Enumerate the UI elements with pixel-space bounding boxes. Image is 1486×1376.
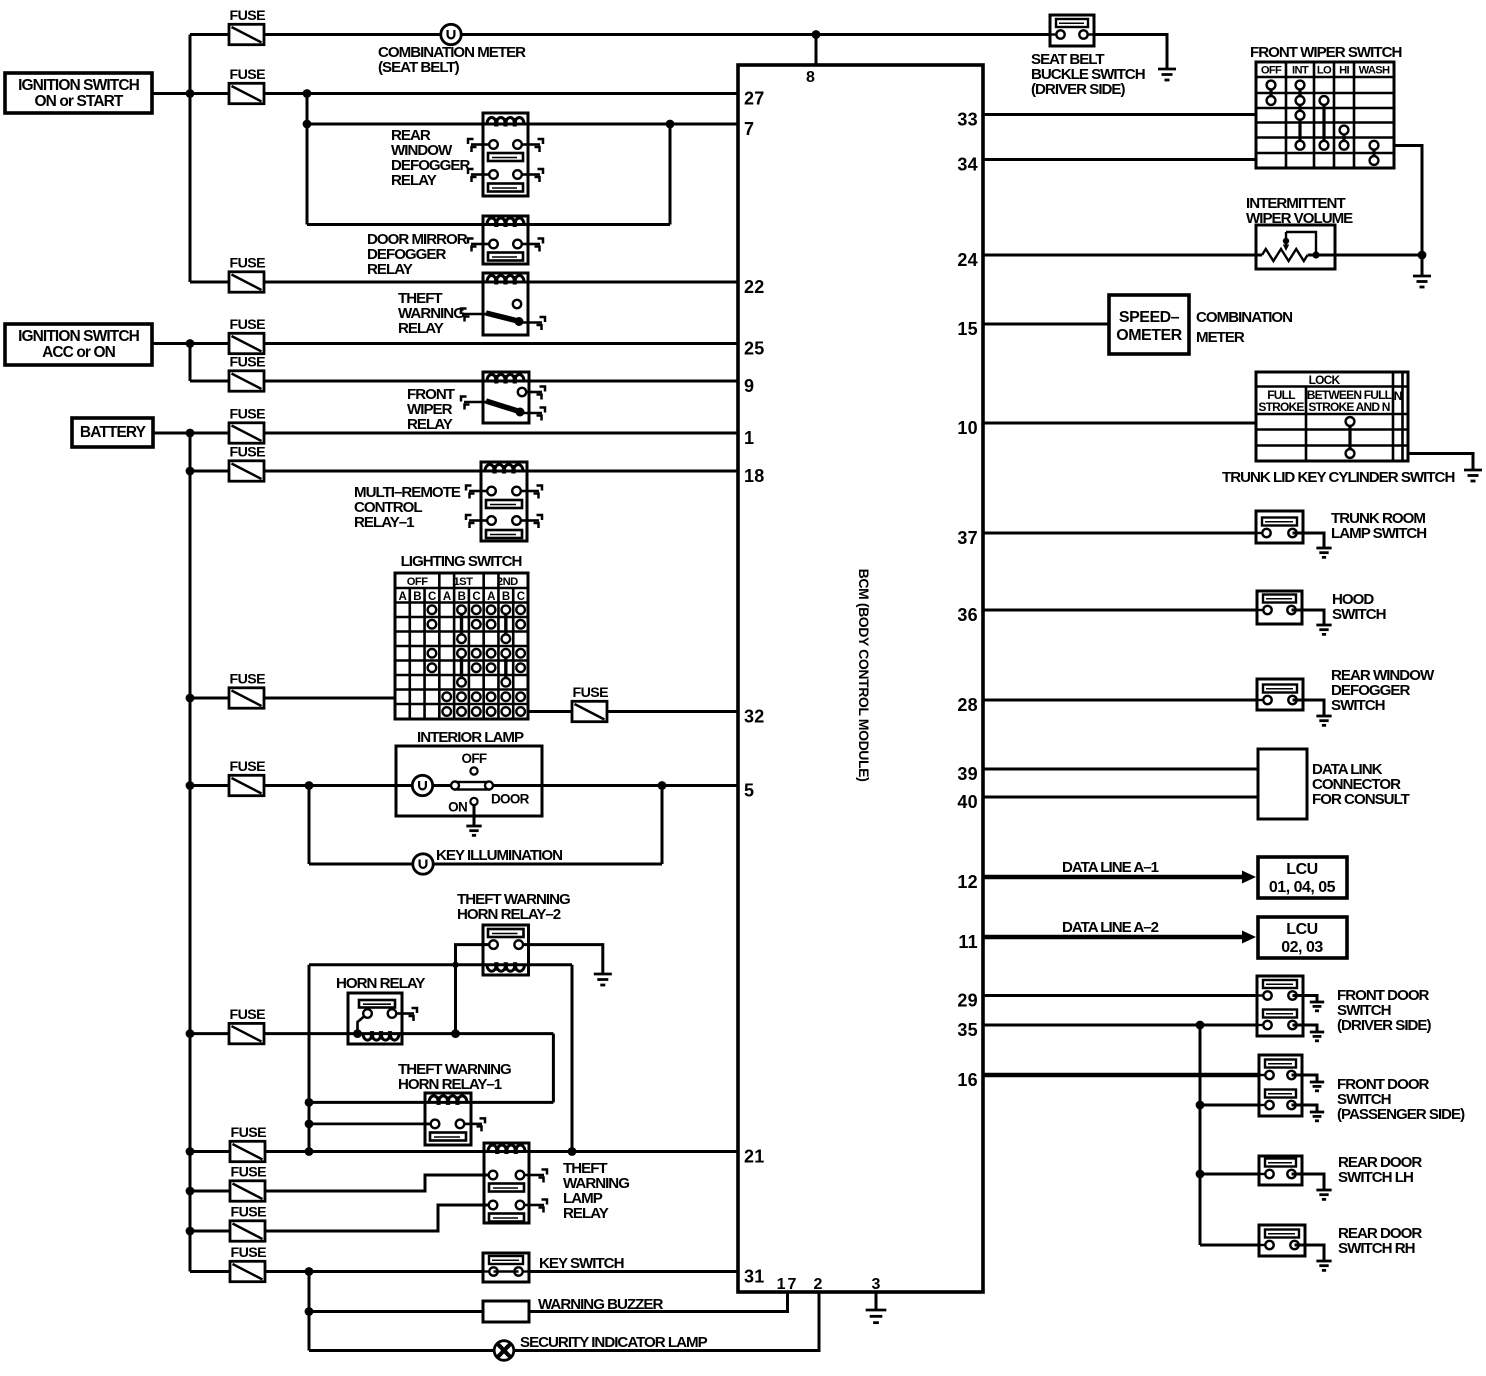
wire pin 21 [190, 1150, 738, 1153]
lamp key illumination [413, 854, 433, 874]
svg-text:SWITCH: SWITCH [1331, 697, 1385, 714]
wire pin 28 [983, 699, 1266, 702]
wire interior lamp ON to ground [473, 805, 476, 826]
node ON/START junction [186, 89, 195, 98]
svg-text:40: 40 [957, 792, 978, 812]
wire top combination-meter feed [190, 33, 1050, 36]
switch rear door LH [1259, 1156, 1302, 1185]
svg-text:HORN RELAY–2: HORN RELAY–2 [457, 906, 561, 923]
svg-text:3: 3 [872, 1276, 881, 1293]
wire pin 1 [190, 432, 738, 435]
ground interior lamp [466, 825, 481, 828]
wire pin 27 [190, 92, 738, 95]
svg-text:OFF: OFF [1261, 65, 1282, 77]
wire pin 39 [983, 768, 1258, 771]
component intermittent wiper volume [1256, 225, 1335, 269]
switch trunk room lamp [1256, 511, 1303, 543]
svg-text:RELAY: RELAY [391, 172, 437, 189]
svg-text:METER: METER [1196, 329, 1245, 346]
svg-text:(DRIVER SIDE): (DRIVER SIDE) [1337, 1017, 1431, 1034]
module BCM body control module [738, 65, 983, 1292]
svg-text:IGNITION SWITCH: IGNITION SWITCH [18, 77, 140, 94]
switch rear door RH [1259, 1225, 1305, 1256]
svg-text:LCU: LCU [1286, 861, 1317, 878]
svg-text:OFF: OFF [462, 751, 487, 766]
wire pin 18 [190, 470, 738, 473]
fuse F13 [230, 1181, 265, 1201]
svg-text:RELAY: RELAY [398, 320, 444, 337]
wire wiper switch to ground bus [1394, 146, 1422, 277]
svg-text:FUSE: FUSE [573, 685, 609, 701]
ground front wiper circuit [1413, 275, 1431, 278]
bus ignition ON/START [189, 35, 192, 283]
svg-text:16: 16 [957, 1070, 978, 1090]
svg-text:FUSE: FUSE [230, 355, 266, 371]
svg-text:ACC or ON: ACC or ON [42, 344, 116, 361]
node pin18 fuse [186, 467, 195, 476]
relay theft warning horn relay-1 [425, 1093, 471, 1145]
svg-text:ON or START: ON or START [35, 93, 124, 110]
ground trunk lid key cylinder [1464, 469, 1482, 472]
svg-text:11: 11 [958, 932, 978, 952]
wire pin 33 [983, 113, 1256, 116]
svg-text:22: 22 [744, 277, 765, 297]
wire rear door LH [1200, 1173, 1266, 1176]
fuse F14 [230, 1221, 265, 1241]
wire pin 35 [983, 1024, 1266, 1027]
svg-text:C: C [517, 591, 525, 603]
svg-text:FUSE: FUSE [230, 445, 266, 461]
svg-text:31: 31 [744, 1267, 765, 1287]
svg-text:17: 17 [777, 1276, 799, 1293]
ground pin 3 [866, 1309, 887, 1312]
svg-text:STROKE AND N: STROKE AND N [1308, 400, 1389, 414]
svg-text:35: 35 [957, 1020, 978, 1040]
switch front door driver side [1257, 976, 1303, 1036]
wire pin 22 [190, 281, 738, 284]
svg-text:N: N [1394, 389, 1402, 403]
svg-text:FUSE: FUSE [230, 256, 266, 272]
svg-text:ON: ON [448, 800, 467, 815]
svg-text:TRUNK LID KEY CYLINDER SWITCH: TRUNK LID KEY CYLINDER SWITCH [1222, 469, 1454, 486]
svg-text:KEY SWITCH: KEY SWITCH [539, 1255, 624, 1272]
wire horn relay out to horn relay-1 coil [552, 1034, 555, 1103]
wire pin 16 [983, 1073, 1266, 1078]
svg-text:28: 28 [957, 695, 978, 715]
svg-text:21: 21 [744, 1147, 765, 1167]
fuse F4 (pin25) [229, 333, 264, 353]
wire horn relay-2 left contact [456, 945, 490, 1034]
svg-text:LO: LO [1317, 65, 1332, 77]
fuse F10 (interior lamp) [229, 775, 264, 795]
relay door mirror defogger [483, 216, 528, 264]
wire pin 31 [190, 1270, 738, 1273]
svg-text:(PASSENGER SIDE): (PASSENGER SIDE) [1337, 1106, 1465, 1123]
svg-text:1ST: 1ST [453, 576, 473, 588]
relay multi-remote control relay-1 [481, 462, 527, 541]
box IGNITION SWITCH ON or START [5, 73, 152, 113]
fuse F3 (pin22) [229, 272, 264, 292]
svg-text:FUSE: FUSE [231, 1205, 267, 1221]
wire pin 34 [983, 158, 1256, 161]
svg-text:C: C [472, 591, 480, 603]
node pin 8 feed [812, 30, 821, 39]
svg-text:12: 12 [957, 872, 978, 892]
svg-text:FUSE: FUSE [231, 1125, 267, 1141]
wire lamp relay row2 feed [186, 1227, 195, 1236]
svg-text:(DRIVER SIDE): (DRIVER SIDE) [1031, 81, 1125, 98]
wire trunk lid switch to ground [1408, 454, 1473, 471]
svg-text:29: 29 [957, 991, 978, 1011]
svg-text:34: 34 [957, 155, 978, 175]
bus ignition ACC [189, 344, 192, 382]
box IGNITION SWITCH ACC or ON [5, 324, 152, 365]
wire rd LH ground [1292, 1174, 1325, 1190]
fuse F9 (pin32) [572, 701, 607, 721]
svg-text:RELAY–1: RELAY–1 [354, 514, 414, 531]
wire lighting out pin 32 [528, 710, 738, 713]
svg-text:FOR CONSULT: FOR CONSULT [1312, 791, 1411, 808]
switch key switch [483, 1253, 529, 1282]
wire hood switch to ground [1292, 610, 1325, 625]
switch hood [1257, 591, 1302, 624]
ground horn relay-2 [594, 973, 612, 976]
svg-text:LAMP SWITCH: LAMP SWITCH [1331, 525, 1426, 542]
wire pin 24 [983, 254, 1262, 257]
wire branch to door mirror relay [306, 94, 309, 225]
wire pin 25 [190, 342, 738, 345]
svg-text:B: B [413, 591, 421, 603]
box interior lamp [396, 746, 542, 816]
svg-text:FUSE: FUSE [231, 1165, 267, 1181]
wire pin 37 [983, 532, 1266, 535]
svg-text:COMBINATION: COMBINATION [1196, 309, 1292, 326]
switch seat belt buckle [1050, 15, 1094, 46]
svg-text:B: B [502, 591, 510, 603]
svg-text:C: C [428, 591, 436, 603]
svg-text:LOCK: LOCK [1309, 373, 1341, 387]
svg-text:15: 15 [957, 319, 978, 339]
box LCU 01 04 05 [1258, 857, 1347, 898]
svg-text:LCU: LCU [1286, 921, 1317, 938]
wire pin 9 [190, 380, 738, 383]
svg-text:01, 04, 05: 01, 04, 05 [1269, 879, 1336, 896]
svg-text:25: 25 [744, 339, 765, 359]
switch trunk lid key cylinder table [1256, 372, 1408, 461]
wire fd driver row2 ground [1293, 1025, 1318, 1032]
svg-text:HI: HI [1339, 65, 1349, 77]
svg-text:SECURITY INDICATOR LAMP: SECURITY INDICATOR LAMP [520, 1334, 708, 1351]
lamp security indicator [494, 1341, 514, 1361]
svg-text:INT: INT [1292, 65, 1309, 77]
relay horn relay [348, 993, 402, 1044]
svg-text:BCM (BODY CONTROL MODULE): BCM (BODY CONTROL MODULE) [856, 569, 872, 782]
wire fd driver row1 ground [1293, 996, 1318, 1003]
wire resistor out [1308, 254, 1422, 257]
svg-text:FUSE: FUSE [230, 407, 266, 423]
switch front wiper switch table [1256, 62, 1394, 168]
svg-text:LIGHTING SWITCH: LIGHTING SWITCH [401, 553, 522, 570]
wire pin 40 [983, 796, 1258, 799]
svg-text:27: 27 [744, 89, 765, 109]
fuse F1 (combination meter) [229, 24, 264, 44]
wire ignition ON/START to bus [152, 92, 190, 95]
svg-text:SWITCH: SWITCH [1332, 606, 1386, 623]
svg-text:36: 36 [957, 605, 978, 625]
svg-text:A: A [443, 591, 451, 603]
switch front door passenger side [1259, 1055, 1302, 1116]
wire pin 36 [983, 609, 1266, 612]
relay rear window defogger [483, 113, 528, 196]
wire horn relay-2 coil feed [309, 963, 572, 966]
wire security lamp to pin 2 [309, 1292, 819, 1351]
svg-text:(SEAT BELT): (SEAT BELT) [378, 59, 460, 76]
svg-text:OMETER: OMETER [1116, 327, 1182, 344]
fuse F11 (horn relay) [229, 1023, 264, 1043]
svg-text:KEY ILLUMINATION: KEY ILLUMINATION [436, 847, 562, 864]
relay front wiper [483, 372, 529, 423]
svg-text:INTERIOR LAMP: INTERIOR LAMP [417, 729, 524, 746]
relay theft warning [483, 273, 528, 335]
wire data line A-2 pin 11 [983, 935, 1247, 940]
switch interior lamp selector [470, 767, 477, 774]
svg-text:24: 24 [957, 250, 978, 270]
fuse F2 (pin27) [229, 83, 264, 103]
wire rd RH ground [1295, 1245, 1325, 1261]
node pin7 branch [303, 89, 312, 98]
box BATTERY [72, 418, 153, 447]
svg-text:37: 37 [957, 528, 978, 548]
fuse F12 (pin21) [230, 1141, 265, 1161]
fuse F7 (pin18) [229, 461, 264, 481]
svg-text:5: 5 [744, 781, 754, 801]
svg-text:39: 39 [957, 764, 978, 784]
wire pin 8 [815, 35, 818, 66]
svg-text:DATA LINE A–2: DATA LINE A–2 [1062, 919, 1159, 936]
svg-text:IGNITION SWITCH: IGNITION SWITCH [18, 328, 140, 345]
wire pin 10 [983, 422, 1256, 425]
wire lamp relay row1 feed [186, 1187, 195, 1196]
svg-text:FUSE: FUSE [230, 317, 266, 333]
relay theft warning horn relay-2 [483, 925, 529, 975]
wiper arm intermittent volume [1286, 232, 1316, 255]
svg-text:SPEED–: SPEED– [1119, 309, 1180, 326]
svg-text:FRONT WIPER SWITCH: FRONT WIPER SWITCH [1250, 44, 1401, 61]
svg-text:FUSE: FUSE [230, 1007, 266, 1023]
wire pin 3 to ground [875, 1292, 878, 1310]
wire pin 15 [983, 323, 1109, 326]
wire horn relay feed [186, 1029, 195, 1038]
wire rear door RH [1200, 1244, 1266, 1247]
svg-text:FUSE: FUSE [230, 759, 266, 775]
ground seat belt buckle switch [1158, 68, 1176, 71]
component warning buzzer [483, 1301, 529, 1322]
node interior lamp fuse [186, 781, 195, 790]
wire trunk room lamp to ground [1293, 533, 1325, 548]
svg-text:RELAY: RELAY [407, 416, 453, 433]
wire pin 7 [307, 123, 738, 126]
wire pin 5 [190, 784, 738, 787]
svg-text:7: 7 [744, 119, 754, 139]
wire ACC to bus [152, 342, 190, 345]
box LCU 02 03 [1258, 917, 1347, 958]
svg-text:FUSE: FUSE [230, 8, 266, 24]
svg-text:32: 32 [744, 707, 765, 727]
fuse F8 (lighting) [186, 694, 195, 703]
switch rear window defogger [1257, 679, 1303, 710]
svg-text:18: 18 [744, 466, 765, 486]
relay theft warning lamp relay [484, 1143, 529, 1223]
switch lighting switch table [395, 573, 528, 719]
svg-text:33: 33 [957, 110, 978, 130]
svg-text:WARNING BUZZER: WARNING BUZZER [538, 1296, 663, 1313]
svg-text:A: A [398, 591, 406, 603]
lamp interior lamp bulb [412, 775, 432, 795]
node pin21 fuse [186, 1147, 195, 1156]
wire horn relay-2 right contact to ground [523, 945, 603, 974]
wire seat-belt to ground [1094, 35, 1167, 70]
svg-text:2ND: 2ND [497, 576, 518, 588]
svg-text:STROKE: STROKE [1258, 400, 1304, 414]
wire fd passenger row2 [1200, 1104, 1266, 1107]
svg-text:FUSE: FUSE [231, 1245, 267, 1261]
svg-text:2: 2 [814, 1276, 823, 1293]
svg-text:HORN RELAY–1: HORN RELAY–1 [398, 1076, 502, 1093]
connector data link for consult [1258, 749, 1307, 819]
svg-text:OFF: OFF [407, 576, 429, 588]
svg-text:B: B [458, 591, 466, 603]
lamp combination meter (seat belt) [441, 24, 461, 44]
svg-text:FUSE: FUSE [230, 672, 266, 688]
svg-text:DOOR: DOOR [491, 792, 530, 807]
svg-text:WASH: WASH [1359, 65, 1390, 77]
svg-text:BATTERY: BATTERY [80, 424, 147, 441]
wire warning buzzer to pin 17 [309, 1292, 788, 1312]
svg-text:FUSE: FUSE [230, 67, 266, 83]
wire buzzer feed [308, 1272, 311, 1351]
fuse F15 (key switch) [230, 1261, 265, 1281]
svg-text:RELAY: RELAY [563, 1205, 609, 1222]
wire key illumination loop [308, 786, 311, 865]
wire fd passenger row2 ground [1292, 1105, 1318, 1112]
wire door switch bus [1199, 1025, 1202, 1245]
svg-text:9: 9 [744, 376, 754, 396]
svg-text:1: 1 [744, 428, 754, 448]
wire rwd switch to ground [1293, 700, 1325, 716]
ground hood switch [1316, 624, 1331, 627]
fuse F6 (pin1) [229, 423, 264, 443]
svg-text:8: 8 [806, 69, 815, 86]
wire fd passenger row1 ground [1292, 1075, 1318, 1082]
wire battery to bus [153, 432, 190, 435]
fuse F5 (pin9) [229, 371, 264, 391]
wire pin 29 [983, 994, 1266, 997]
svg-text:SWITCH LH: SWITCH LH [1338, 1169, 1413, 1186]
svg-text:02, 03: 02, 03 [1281, 939, 1323, 956]
svg-text:RELAY: RELAY [367, 261, 413, 278]
box speedometer [1109, 295, 1189, 354]
svg-text:SWITCH RH: SWITCH RH [1338, 1240, 1415, 1257]
svg-text:A: A [487, 591, 495, 603]
ground trunk room lamp [1316, 547, 1331, 550]
ground rear window defogger switch [1316, 715, 1331, 718]
svg-text:10: 10 [957, 418, 978, 438]
svg-text:HORN RELAY: HORN RELAY [336, 975, 425, 992]
bus battery [189, 433, 192, 1272]
wire data line A-1 pin 12 [983, 875, 1247, 880]
svg-text:DATA LINE A–1: DATA LINE A–1 [1062, 859, 1159, 876]
